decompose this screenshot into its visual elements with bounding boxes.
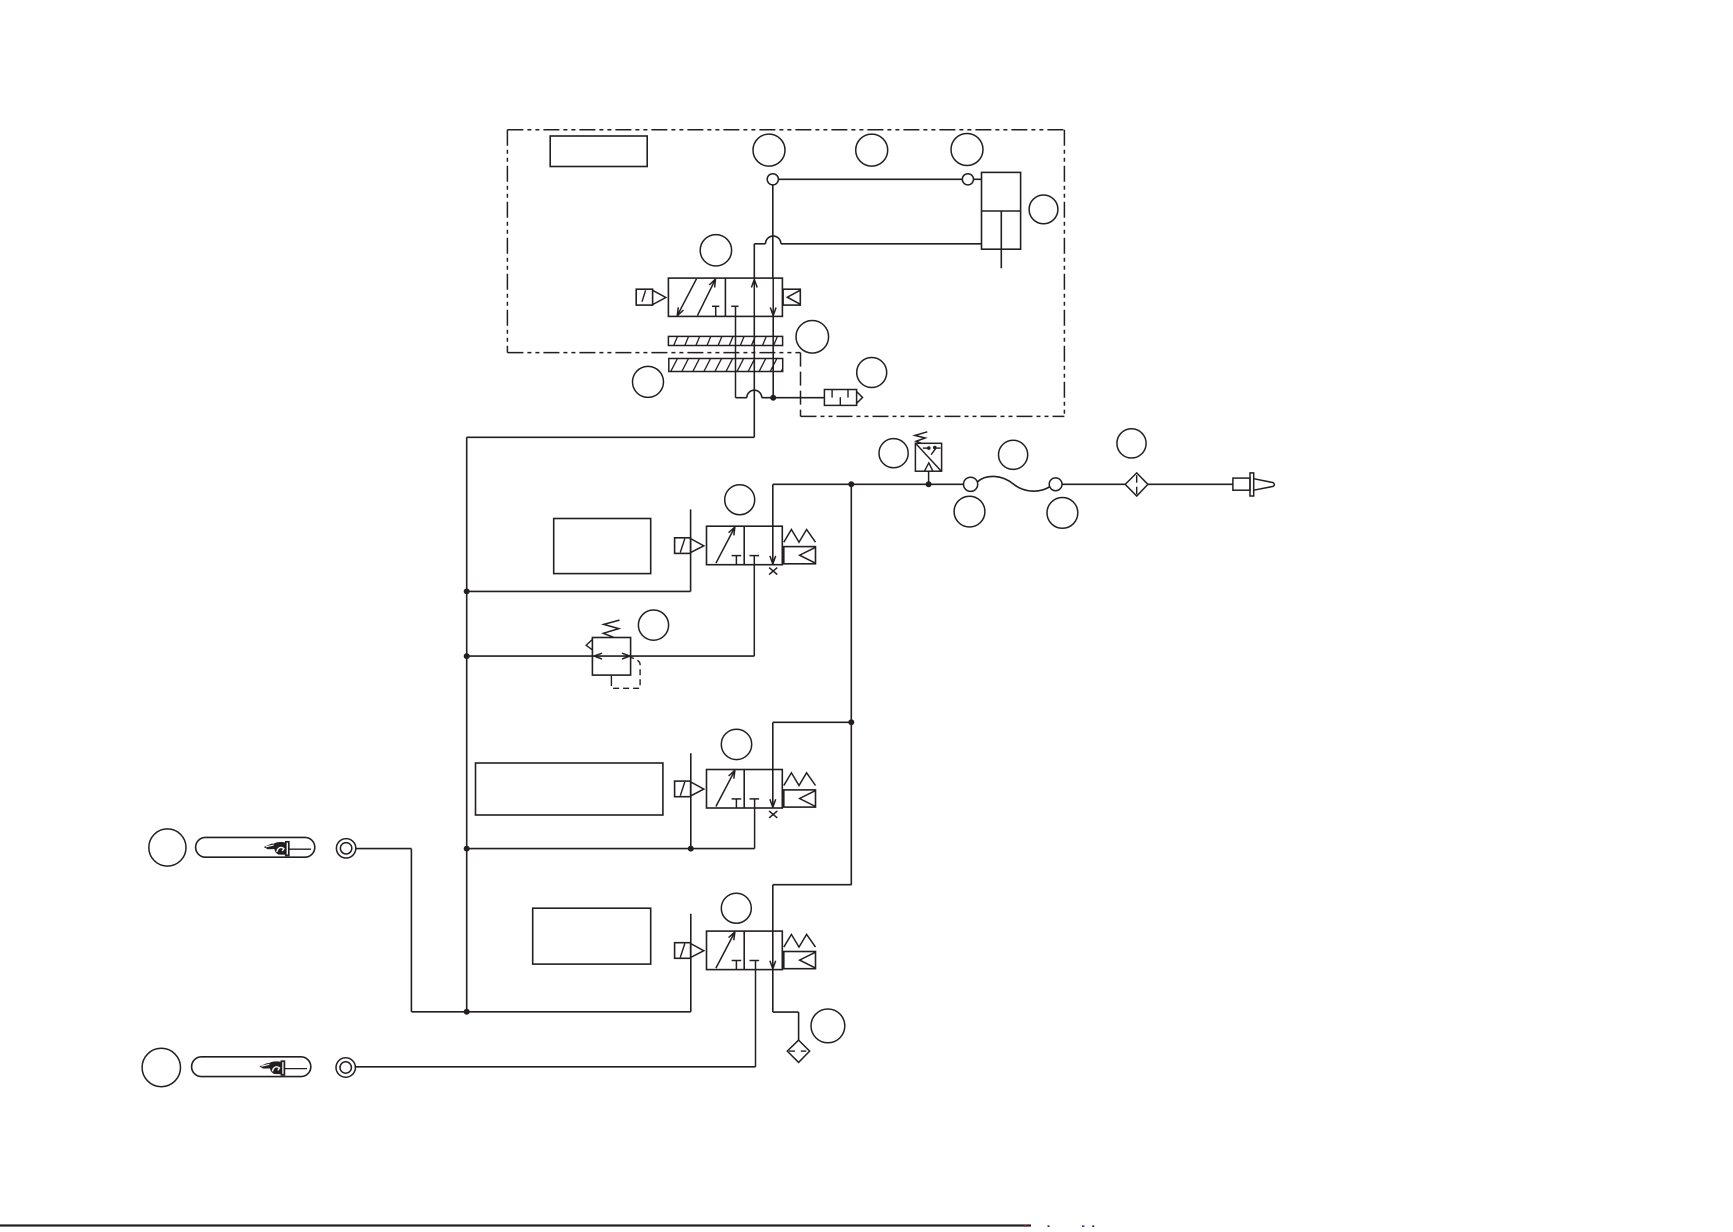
cylinder piston rod: [1000, 211, 1002, 268]
callout balloon 19 (hand valve 1): [149, 829, 186, 866]
5/2 valve left cell crossed flow arrows: [677, 279, 696, 316]
callout balloon 5 (5/2 valve): [700, 235, 731, 266]
wire: exhaust horizontal with jump: [736, 397, 747, 399]
label box valve V2: [476, 763, 663, 815]
valve V1 output down-arrow line: [772, 484, 774, 564]
hand valve 2 pointing-hand icon: [259, 1063, 271, 1069]
hose coupling circle left: [964, 477, 978, 491]
callout balloon 20 (hand valve 2): [142, 1048, 180, 1086]
wire: valve V2 exhaust stem: [754, 799, 756, 849]
wire: 5/2 exhaust T stem down: [735, 306, 737, 397]
wire: 5/2 port4 line down to junction: [772, 316, 774, 397]
3/2 solenoid valve V3: [675, 931, 816, 970]
hand valve 2 (manual blow) pill: [192, 1057, 311, 1077]
pressure regulator body: [592, 638, 630, 676]
hand valve 2 port double circle: [336, 1058, 355, 1077]
valve V1 plugged port x: [769, 568, 777, 575]
callout balloon 17 (check valve): [1117, 429, 1146, 458]
callout balloon 6 (plate): [796, 321, 829, 354]
3/2 solenoid valve V1: [675, 526, 816, 565]
callout balloon 13 (pressure switch): [879, 439, 908, 468]
label box valve V1: [554, 519, 651, 574]
wire: valve V3 pilot line: [690, 914, 692, 1012]
5/2 valve right cell exhaust port T: [731, 305, 738, 307]
regulator internal arrows: [594, 656, 602, 659]
wire: pressure switch stem: [928, 471, 930, 484]
wire: head-side port line: [778, 178, 962, 180]
wire: 5/2 output (port2) line down through plates: [753, 316, 755, 437]
callout balloon 10 (regulator): [638, 610, 668, 640]
manifold plate 1 (hatched): [668, 336, 782, 345]
wire: rod-side vertical to valve port 2: [753, 244, 755, 278]
junction dot main/bus: [848, 481, 854, 487]
regulator dashed feedback loop: [610, 675, 612, 680]
3/2 solenoid valve V2: [675, 770, 816, 809]
junction dot V2 pilot: [688, 846, 694, 852]
valve V3 output line down to drain: [772, 885, 774, 1012]
valve V2 output down-arrow line: [772, 722, 774, 807]
flexible hose: [978, 476, 1051, 491]
wire: valve V1 output to main line: [773, 483, 852, 485]
5/2 valve right cell down-flow arrow: [772, 278, 774, 316]
cylinder head-side port circle: [767, 174, 778, 185]
cylinder piston: [982, 210, 1021, 212]
cut-off text remnants: [1025, 1225, 1027, 1227]
air cylinder body: [982, 172, 1021, 249]
nozzle tip: [1254, 479, 1275, 491]
callout balloon 7 (plate lower): [633, 366, 664, 397]
wire: valve V1 pilot line: [690, 509, 692, 591]
wire: line to nozzle: [1148, 483, 1233, 485]
5/2 valve right cell up-flow arrow: [753, 278, 755, 316]
hose coupling circle right: [1049, 478, 1062, 491]
wire: left supply bus vertical: [466, 437, 468, 1012]
wire: valve V2 pilot/exhaust horizontal: [467, 848, 755, 850]
callout balloon 12 (valve V3): [721, 893, 751, 923]
callout balloon 2: [856, 134, 888, 166]
junction dot V2 feed: [848, 719, 854, 725]
5/2 valve air return (right): [783, 289, 800, 305]
pressure switch: [915, 443, 941, 471]
5/2 valve solenoid (left): [636, 289, 652, 305]
callout balloon 16: [1047, 498, 1078, 529]
hand valve 1 port double circle: [336, 839, 355, 858]
callout balloon 15: [954, 496, 985, 527]
wire: horizontal from 5/2 output to left bus: [467, 436, 755, 438]
label box valve V3: [533, 908, 651, 964]
callout balloon 18 (drain): [811, 1009, 845, 1043]
callout balloon 11 (valve V2): [721, 729, 751, 759]
junction dot exhaust: [770, 395, 776, 401]
pressure switch spring: [915, 432, 927, 444]
junction dot pressure switch: [926, 481, 932, 487]
callout balloon 9 (valve V1): [725, 485, 755, 515]
manifold plate 2 (hatched): [669, 359, 783, 372]
junction dot regulator line: [464, 653, 470, 659]
junction dot V2 bus: [464, 846, 470, 852]
wire: regulator line from bus to valve V1 exhaust: [467, 655, 755, 657]
regulator spring: [603, 620, 619, 637]
callout balloon 14 (hose): [999, 440, 1028, 469]
wire: main air line: [851, 483, 928, 485]
page bottom rule: [0, 1224, 1031, 1226]
cylinder rod-side port circle: [962, 174, 973, 185]
drain diamond: [787, 1040, 809, 1062]
wire: line to check valve: [1062, 483, 1125, 485]
nozzle flange: [1250, 473, 1254, 496]
5/2 solenoid valve body: [668, 278, 782, 316]
valve V2 plugged port x: [769, 811, 777, 818]
wire: valve V2 pilot line: [690, 753, 692, 848]
5/2 valve cell divider: [724, 278, 726, 316]
wire: valve V3 feed from main bus: [773, 884, 852, 886]
hand valve 1 pointing-hand icon: [264, 844, 276, 850]
wire: hand valve 1 output: [356, 848, 412, 850]
junction dot V1 pilot: [464, 588, 470, 594]
wire: valve V3 exhaust stem: [755, 961, 757, 1067]
wire: valve V1 exhaust stem: [753, 556, 755, 657]
wire: hand valve 2 output to valve V3 exhaust: [355, 1066, 755, 1068]
callout balloon 8 (silencer area): [857, 358, 887, 388]
wire: main vertical bus: [850, 484, 852, 884]
check valve (filter diamond): [1125, 473, 1148, 496]
silencer: [824, 390, 856, 406]
label box (unit name): [550, 136, 647, 167]
callout balloon 3: [951, 134, 983, 166]
nozzle body: [1233, 478, 1250, 490]
hand valve 1 (manual blow) pill: [196, 837, 315, 857]
callout balloon 4 (cylinder): [1029, 195, 1058, 224]
wire: hand valve 1 signal horizontal: [411, 1011, 690, 1013]
regulator relief triangle: [586, 639, 592, 650]
wire: rod-side line with jump over head-side wire: [754, 243, 765, 245]
machine unit enclosure (phantom dash-dot border): [507, 130, 1064, 417]
wire: head-side vertical to valve port 4: [772, 185, 774, 278]
5/2 valve left cell blocked port T: [712, 305, 719, 307]
callout balloon 1: [753, 134, 785, 166]
enclosure notch dashed line: [800, 353, 802, 417]
junction dot V3 pilot/bus: [464, 1009, 470, 1015]
wire: valve V2 feed from main bus: [773, 721, 852, 723]
